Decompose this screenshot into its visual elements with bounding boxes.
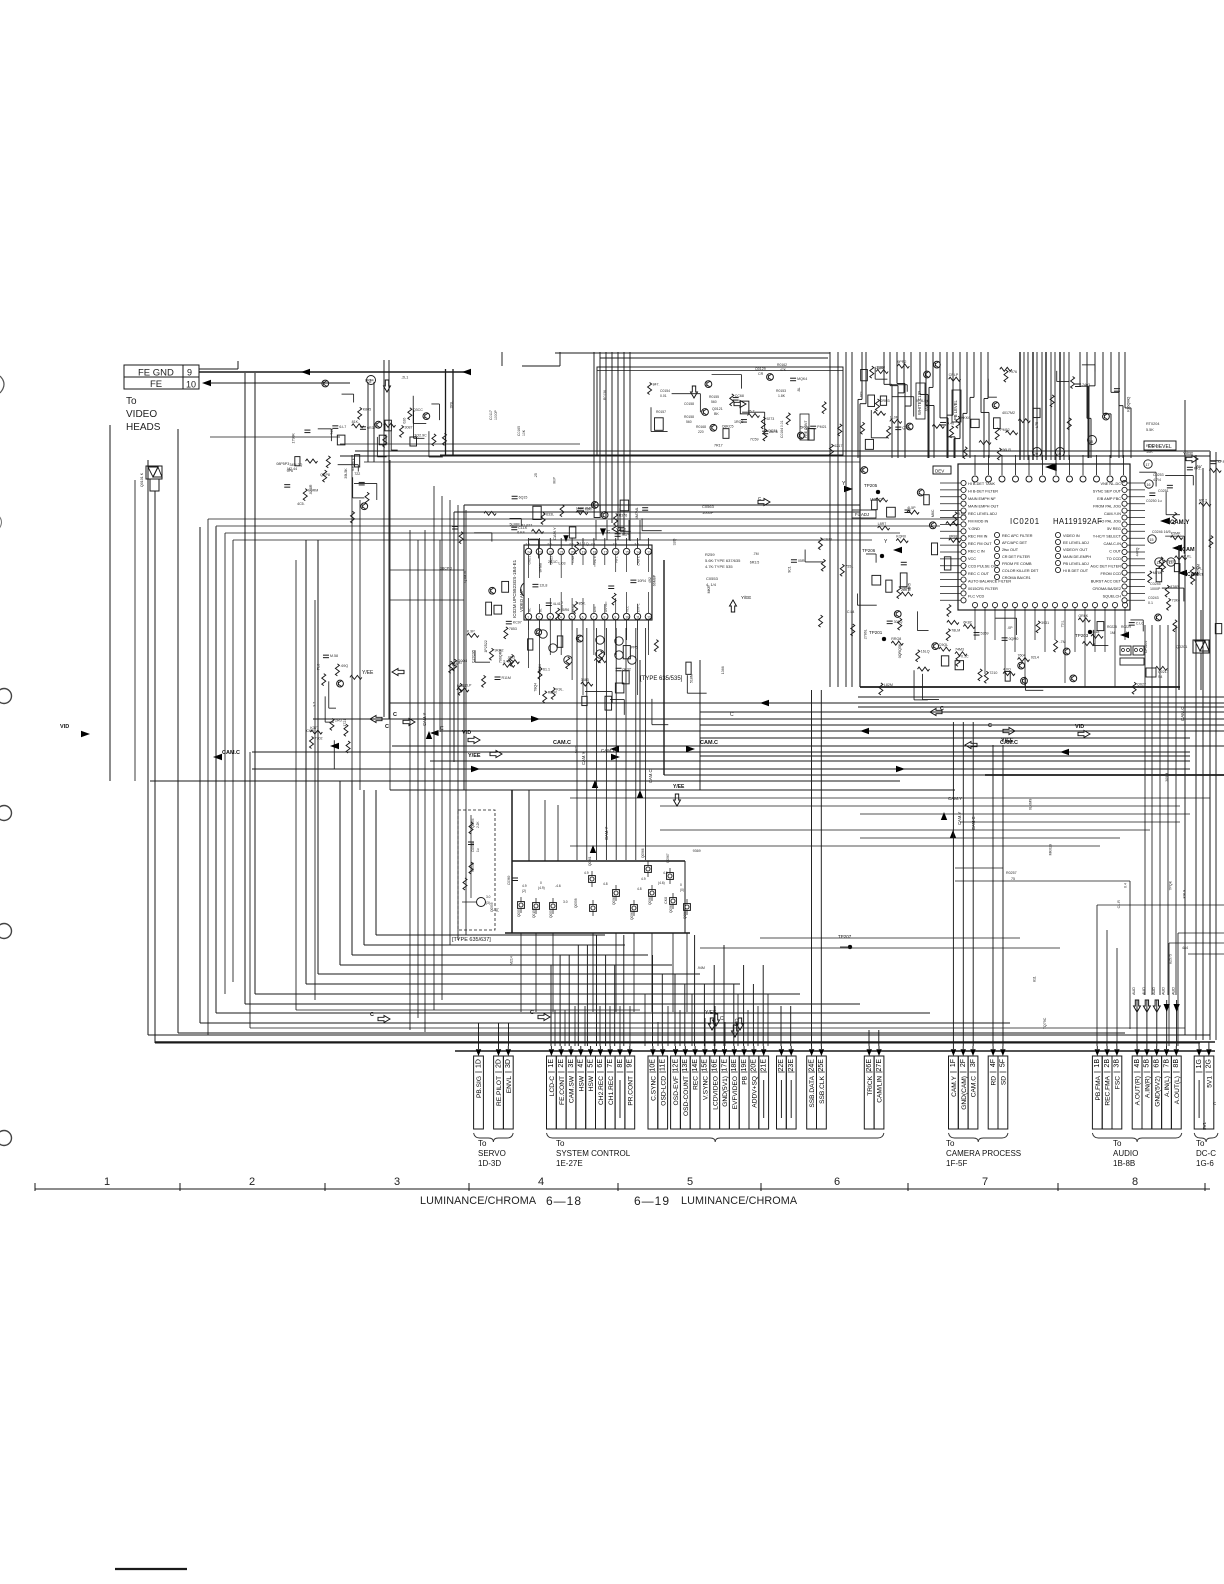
svg-text:BURST ACC DET: BURST ACC DET (1091, 580, 1122, 584)
svg-text:722: 722 (354, 472, 360, 476)
svg-text:VIDEO IN: VIDEO IN (1063, 534, 1080, 538)
svg-text:CAM.C: CAM.C (971, 1076, 978, 1097)
svg-text:6: 6 (582, 615, 584, 619)
svg-text:1: 1 (527, 615, 529, 619)
svg-text:-4.6: -4.6 (555, 884, 561, 888)
svg-text:CAM: CAM (1182, 547, 1195, 553)
svg-text:14: 14 (1157, 561, 1161, 565)
svg-text:VID: VID (462, 730, 471, 736)
svg-text:AUD: AUD (1142, 987, 1146, 995)
svg-text:CAM.Y: CAM.Y (422, 713, 427, 726)
svg-text:SYSTEM CONTROL: SYSTEM CONTROL (556, 1149, 631, 1158)
svg-text:SD: SD (1001, 1076, 1008, 1085)
svg-text:KL6QMQ: KL6QMQ (1127, 397, 1131, 412)
svg-text:2fsc OUT: 2fsc OUT (1002, 548, 1019, 552)
svg-text:C0246 16/5: C0246 16/5 (1152, 530, 1171, 534)
svg-text:4C5.: 4C5. (297, 502, 305, 506)
svg-text:1F-5F: 1F-5F (946, 1159, 967, 1168)
svg-text:ENVL: ENVL (506, 1076, 513, 1094)
svg-text:CRLP: CRLP (949, 373, 959, 377)
svg-text:2RR3: 2RR3 (880, 399, 889, 403)
svg-text:C0251: C0251 (1158, 489, 1169, 493)
svg-text:1B: 1B (1094, 1059, 1101, 1068)
svg-text:CAM C: CAM C (637, 555, 641, 566)
svg-text:To: To (1113, 1139, 1122, 1148)
svg-text:0.01: 0.01 (660, 394, 667, 398)
svg-text:7E: 7E (607, 1059, 614, 1068)
svg-text:18: 18 (593, 550, 597, 554)
svg-text:GND(CAM): GND(CAM) (961, 1076, 968, 1110)
svg-text:16: 16 (1057, 452, 1061, 456)
svg-text:2B: 2B (1104, 1059, 1111, 1068)
svg-text:25E: 25E (818, 1059, 825, 1072)
svg-text:SQUELCH: SQUELCH (1103, 595, 1122, 599)
svg-text:R0136: R0136 (603, 390, 607, 400)
svg-text:6K8C: 6K8C (963, 620, 972, 624)
svg-text:Q0567: Q0567 (666, 853, 670, 863)
svg-text:EVFVIDEO: EVFVIDEO (732, 1076, 739, 1109)
svg-text:HEADS: HEADS (126, 422, 161, 433)
svg-text:C.LC: C.LC (1136, 622, 1145, 626)
svg-text:C: C (393, 712, 397, 718)
svg-text:12L8: 12L8 (539, 583, 547, 587)
svg-text:4.9: 4.9 (522, 884, 527, 888)
svg-text:1: 1 (104, 1176, 110, 1188)
svg-text:C0154: C0154 (660, 389, 670, 393)
svg-text:0015CR1 FILTER: 0015CR1 FILTER (968, 587, 998, 591)
svg-text:24E: 24E (808, 1059, 815, 1072)
svg-text:R0157: R0157 (656, 410, 666, 414)
svg-text:4.9: 4.9 (641, 877, 646, 881)
svg-text:7: 7 (982, 1176, 988, 1188)
svg-text:R0546: R0546 (471, 862, 475, 872)
svg-text:6—19: 6—19 (634, 1194, 670, 1208)
svg-text:GND1: GND1 (528, 556, 532, 565)
svg-text:TP201: TP201 (869, 630, 883, 635)
svg-text:Q0551: Q0551 (517, 907, 521, 917)
svg-text:Y/EE: Y/EE (362, 670, 374, 676)
svg-text:484: 484 (1182, 946, 1188, 950)
svg-text:MQK4: MQK4 (797, 377, 807, 381)
svg-text:9: 9 (615, 615, 617, 619)
svg-text:C: C (530, 1010, 534, 1016)
svg-text:4.7/4: 4.7/4 (1153, 478, 1161, 482)
svg-text:IC02M UPC5823GS-1B4-E1: IC02M UPC5823GS-1B4-E1 (512, 559, 517, 618)
svg-text:Q0201: Q0201 (1176, 645, 1187, 649)
svg-text:To: To (478, 1139, 487, 1148)
svg-text:To: To (1196, 1139, 1205, 1148)
svg-text:K9L.: K9L. (556, 688, 563, 692)
svg-text:CAMERA PROCESS: CAMERA PROCESS (946, 1149, 1021, 1158)
svg-text:K9L9: K9L9 (1183, 890, 1187, 898)
svg-text:7P0.: 7P0. (450, 401, 454, 408)
svg-text:26E: 26E (866, 1059, 873, 1072)
svg-text:A.IN(L): A.IN(L) (1164, 1076, 1171, 1097)
svg-text:.6CL: .6CL (859, 390, 863, 398)
svg-text:C0553: C0553 (706, 576, 719, 581)
svg-text:FSC: FSC (1115, 1076, 1122, 1089)
svg-text:10: 10 (186, 380, 196, 390)
svg-text:14: 14 (636, 550, 640, 554)
svg-text:5F: 5F (1000, 1059, 1007, 1067)
svg-text:C.SYNC: C.SYNC (651, 1076, 658, 1101)
svg-text:12: 12 (647, 615, 651, 619)
svg-text:PB: PB (742, 1075, 749, 1084)
svg-text:7: 7 (593, 615, 595, 619)
svg-text:C: C (385, 724, 389, 730)
svg-text:L82M: L82M (884, 683, 893, 687)
svg-text:1D-3D: 1D-3D (478, 1159, 501, 1168)
svg-text:AUTO BALANCE FILTER: AUTO BALANCE FILTER (968, 580, 1011, 584)
svg-text:C0165: C0165 (517, 426, 521, 436)
svg-text:Q0158: Q0158 (532, 908, 536, 918)
svg-text:19: 19 (582, 550, 586, 554)
svg-text:1B-8B: 1B-8B (1113, 1159, 1135, 1168)
svg-text:Y-HC/Y SELECT: Y-HC/Y SELECT (1093, 535, 1122, 539)
svg-text:2E: 2E (558, 1059, 565, 1068)
svg-text:4.7K:TYPE 535: 4.7K:TYPE 535 (705, 564, 733, 569)
svg-text:1P2522: 1P2522 (484, 640, 488, 652)
svg-text:24.1C.: 24.1C. (548, 560, 559, 564)
svg-text:1L0P: 1L0P (890, 415, 899, 419)
svg-text:FE.CONT: FE.CONT (559, 1076, 566, 1105)
svg-text:2786L: 2786L (864, 629, 868, 639)
svg-text:FROM PAL JOG: FROM PAL JOG (1093, 505, 1121, 509)
svg-text:4.8: 4.8 (663, 871, 668, 875)
svg-text:ADDV+SQ: ADDV+SQ (752, 1076, 759, 1108)
svg-text:22: 22 (549, 550, 553, 554)
svg-text:..7M: ..7M (1059, 640, 1066, 644)
svg-text:COLOR KILLER DET: COLOR KILLER DET (1002, 569, 1039, 573)
svg-text:CAM.Y: CAM.Y (1170, 520, 1189, 526)
svg-text:18E: 18E (731, 1059, 738, 1072)
svg-text:P0RM: P0RM (308, 489, 318, 493)
svg-text:7PQK: 7PQK (1168, 880, 1172, 890)
svg-text:CAM: CAM (571, 556, 575, 563)
svg-text:1721: 1721 (343, 719, 347, 727)
svg-text:CAM.C: CAM.C (700, 740, 718, 746)
svg-text:220: 220 (698, 430, 704, 434)
svg-text:To: To (556, 1139, 565, 1148)
svg-text:0: 0 (540, 881, 542, 885)
svg-text:AGC DET FILTER: AGC DET FILTER (1090, 565, 1121, 569)
svg-text:6R3.5: 6R3.5 (750, 561, 760, 565)
svg-text:6.L7: 6.L7 (339, 425, 346, 429)
svg-text:16E: 16E (712, 1059, 719, 1072)
svg-text:RT0204: RT0204 (1146, 422, 1159, 426)
svg-text:VIDEO: VIDEO (126, 409, 157, 420)
svg-text:DEV: DEV (935, 469, 944, 474)
svg-text:QR6K: QR6K (1078, 614, 1088, 618)
svg-text:32Q: 32Q (673, 538, 677, 545)
svg-text:9369: 9369 (693, 849, 701, 853)
svg-text:R376: R376 (619, 513, 628, 517)
svg-text:8E: 8E (617, 1059, 624, 1068)
svg-text:AUD: AUD (1152, 987, 1156, 995)
svg-text:M.P: M.P (553, 477, 557, 484)
svg-text:Q0565: Q0565 (648, 895, 652, 905)
svg-text:GND(5V1): GND(5V1) (722, 1076, 729, 1107)
svg-text:C0243: C0243 (1148, 596, 1159, 600)
svg-text:PB LEVEL: PB LEVEL (953, 400, 958, 420)
svg-text:MAIN DE-EMPH: MAIN DE-EMPH (1063, 555, 1091, 559)
svg-text:8: 8 (604, 615, 606, 619)
svg-text:Q1M76: Q1M76 (463, 571, 467, 583)
svg-text:2R0.: 2R0. (335, 718, 343, 722)
svg-text:AUD: AUD (1132, 987, 1136, 995)
svg-text:KQR0: KQR0 (896, 535, 906, 539)
svg-text:E/B AMP FBC: E/B AMP FBC (1097, 497, 1121, 501)
svg-text:CK8: CK8 (664, 897, 668, 904)
svg-text:Y/EE: Y/EE (1001, 738, 1014, 744)
svg-text:QC74: QC74 (768, 429, 777, 433)
svg-text:2.2K: 2.2K (476, 821, 480, 828)
svg-text:HI B-DET TANK: HI B-DET TANK (968, 482, 995, 486)
svg-text:15: 15 (625, 550, 629, 554)
svg-text:10E: 10E (650, 1059, 657, 1072)
svg-text:4: 4 (560, 615, 562, 619)
svg-text:5.6K:TYPE 637/635: 5.6K:TYPE 637/635 (705, 558, 741, 563)
svg-text:96R6: 96R6 (561, 608, 570, 612)
svg-text:SSB.CLK: SSB.CLK (819, 1075, 826, 1103)
svg-text:2.0: 2.0 (569, 542, 574, 546)
svg-text:5359: 5359 (981, 632, 989, 636)
svg-text:7403: 7403 (1082, 383, 1090, 387)
svg-text:TRICK: TRICK (867, 1075, 874, 1095)
svg-text:(6): (6) (495, 908, 499, 912)
svg-text:1M: 1M (1110, 631, 1115, 635)
svg-text:CAM.Y: CAM.Y (957, 812, 962, 825)
svg-text:4017M2: 4017M2 (1002, 411, 1015, 415)
svg-text:3D: 3D (505, 1059, 512, 1068)
svg-text:8B: 8B (1173, 1059, 1180, 1068)
svg-text:5: 5 (571, 615, 573, 619)
svg-text:CL.R: CL.R (1117, 900, 1121, 909)
svg-text:5: 5 (687, 1176, 693, 1188)
svg-text:3E: 3E (568, 1059, 575, 1068)
svg-text:6.K4: 6.K4 (517, 531, 524, 535)
svg-text:12LP: 12LP (463, 683, 472, 687)
svg-text:L.03: L.03 (558, 561, 565, 565)
svg-text:C: C (988, 723, 992, 729)
svg-text:9C1: 9C1 (787, 566, 791, 573)
svg-text:3.0: 3.0 (486, 895, 491, 899)
svg-text:PM21: PM21 (817, 425, 826, 429)
svg-text:7210: 7210 (989, 671, 997, 675)
svg-text:560: 560 (686, 420, 692, 424)
svg-text:7604: 7604 (1018, 654, 1026, 658)
svg-text:3: 3 (549, 615, 551, 619)
svg-text:C.L4: C.L4 (847, 610, 855, 614)
svg-text:C0253: C0253 (1153, 473, 1164, 477)
svg-text:19E: 19E (741, 1059, 748, 1072)
svg-text:1D: 1D (475, 1059, 482, 1068)
svg-text:A.OUT(R): A.OUT(R) (1135, 1076, 1142, 1105)
svg-text:3087: 3087 (405, 425, 413, 429)
svg-text:Y/EE: Y/EE (468, 753, 481, 759)
svg-text:24: 24 (527, 550, 531, 554)
svg-text:4.8: 4.8 (603, 882, 608, 886)
svg-text:PB C: PB C (615, 555, 619, 563)
svg-text:.0P: .0P (1007, 626, 1013, 630)
svg-text:C0556: C0556 (471, 842, 475, 852)
svg-text:M214: M214 (509, 956, 513, 965)
svg-text:C0158: C0158 (684, 402, 694, 406)
svg-text:FE GND: FE GND (138, 368, 174, 379)
svg-text:66M8P: 66M8P (652, 574, 656, 586)
svg-text:31.027: 31.027 (521, 523, 532, 527)
svg-text:4L41: 4L41 (553, 602, 561, 606)
svg-text:C27C95: C27C95 (471, 650, 475, 663)
svg-text:CAM.C: CAM.C (1180, 706, 1185, 721)
svg-text:C0164 0.01: C0164 0.01 (780, 420, 784, 438)
svg-text:Q0564: Q0564 (669, 903, 673, 913)
svg-text:PM52: PM52 (1000, 428, 1009, 432)
svg-text:MKR: MKR (707, 585, 711, 593)
svg-text:.25: .25 (534, 473, 538, 478)
svg-text:EVF: EVF (593, 606, 597, 612)
svg-text:8.MK: 8.MK (958, 512, 967, 516)
svg-text:V.SYNC: V.SYNC (703, 1076, 710, 1100)
svg-text:12E: 12E (672, 1059, 679, 1072)
svg-text:LUMINANCE/CHROMA: LUMINANCE/CHROMA (420, 1195, 537, 1207)
svg-text:CH2.REC: CH2.REC (598, 1076, 605, 1105)
svg-text:10K: 10K (522, 429, 526, 436)
svg-text:7R17: 7R17 (714, 444, 723, 448)
svg-text:TO PAL JOG: TO PAL JOG (1099, 520, 1121, 524)
svg-text:706QR8: 706QR8 (498, 650, 502, 663)
svg-text:3Q2.9C: 3Q2.9C (414, 434, 427, 438)
svg-text:To: To (126, 396, 137, 407)
svg-text:11E: 11E (660, 1059, 667, 1071)
svg-text:6: 6 (834, 1176, 840, 1188)
svg-text:23E: 23E (788, 1059, 795, 1072)
svg-text:(4.9): (4.9) (538, 886, 545, 890)
svg-text:M.58: M.58 (330, 654, 338, 658)
svg-text:TO CCD: TO CCD (1107, 557, 1122, 561)
svg-text:492: 492 (648, 577, 652, 583)
svg-text:To: To (946, 1139, 955, 1148)
svg-text:EE LEVEL: EE LEVEL (1148, 444, 1172, 450)
svg-text:10R4: 10R4 (637, 579, 646, 583)
svg-text:0K32: 0K32 (623, 667, 631, 671)
svg-text:8: 8 (1132, 1176, 1138, 1188)
svg-text:1u: 1u (476, 848, 480, 852)
svg-text:74M3: 74M3 (955, 648, 964, 652)
svg-text:61.1: 61.1 (543, 667, 550, 671)
svg-text:27E: 27E (876, 1059, 883, 1072)
svg-text:0LKM9: 0LKM9 (1028, 799, 1032, 810)
svg-text:9273: 9273 (766, 417, 774, 421)
svg-text:743: 743 (330, 429, 334, 435)
svg-text:DC-C: DC-C (1196, 1149, 1216, 1158)
svg-text:2: 2 (538, 615, 540, 619)
svg-text:PB.SIG: PB.SIG (476, 1076, 483, 1098)
svg-text:FROM FE COMB: FROM FE COMB (1002, 562, 1032, 566)
svg-text:SERVO: SERVO (478, 1149, 506, 1158)
svg-text:VID: VID (60, 724, 69, 730)
svg-text:9PR2: 9PR2 (897, 360, 906, 364)
svg-text:TP203: TP203 (1075, 633, 1089, 638)
svg-text:.94M: .94M (697, 966, 705, 970)
svg-text:CROMA BA/DE2: CROMA BA/DE2 (1093, 587, 1121, 591)
svg-text:BK: BK (714, 412, 719, 416)
svg-text:RRQ8: RRQ8 (891, 637, 901, 641)
svg-text:HI B-DET FILTER: HI B-DET FILTER (968, 490, 998, 494)
svg-text:47K: 47K (780, 368, 787, 372)
svg-text:4B: 4B (1134, 1059, 1141, 1068)
svg-text:6—18: 6—18 (546, 1194, 582, 1208)
svg-text:13: 13 (1169, 561, 1173, 565)
svg-text:1000P: 1000P (1150, 587, 1161, 591)
svg-text:VCC: VCC (968, 557, 976, 561)
svg-text:TYPE C: TYPE C (593, 555, 597, 567)
svg-text:17: 17 (604, 550, 608, 554)
svg-text:VCC: VCC (626, 605, 630, 612)
svg-text:CAM/LIN: CAM/LIN (877, 1076, 884, 1103)
svg-text:4.9: 4.9 (584, 871, 589, 875)
svg-text:CAM.C: CAM.C (648, 770, 653, 784)
svg-text:17E: 17E (721, 1059, 728, 1072)
svg-text:R0168: R0168 (696, 425, 706, 429)
svg-text:78LM: 78LM (951, 629, 960, 633)
svg-text:1E-27E: 1E-27E (556, 1159, 583, 1168)
svg-text:1F: 1F (950, 1059, 957, 1067)
svg-text:7Q79C: 7Q79C (1043, 1017, 1047, 1029)
svg-text:85K.: 85K. (579, 601, 586, 605)
svg-text:CAM.Y: CAM.Y (601, 748, 615, 753)
svg-text:16LQ: 16LQ (921, 650, 930, 654)
svg-text:Q0101 K: Q0101 K (140, 472, 144, 487)
svg-text:CAM.Y: CAM.Y (951, 1075, 958, 1096)
svg-text:22E: 22E (778, 1059, 785, 1072)
svg-text:4M7ML: 4M7ML (635, 507, 639, 519)
svg-text:02L4: 02L4 (1031, 656, 1039, 660)
svg-text:C0245: C0245 (1150, 582, 1161, 586)
svg-text:9: 9 (187, 368, 192, 378)
svg-text:VIDEO/Y OUT: VIDEO/Y OUT (1063, 548, 1088, 552)
svg-text:CAM-C-IN: CAM-C-IN (1103, 542, 1121, 546)
svg-text:REC FM OUT: REC FM OUT (968, 542, 992, 546)
svg-text:Q0562: Q0562 (612, 895, 616, 905)
svg-text:R0257: R0257 (1006, 871, 1017, 875)
svg-text:CR DET FILTER: CR DET FILTER (1002, 555, 1030, 559)
svg-text:MK029: MK029 (1049, 844, 1053, 855)
svg-text:HSW: HSW (588, 1075, 595, 1091)
svg-text:6B: 6B (1154, 1059, 1161, 1068)
svg-text:CAM.Y: CAM.Y (948, 796, 962, 801)
svg-text:20: 20 (1034, 452, 1038, 456)
svg-text:R86R: R86R (548, 691, 558, 695)
svg-text:13: 13 (647, 550, 651, 554)
svg-text:RD: RD (991, 1076, 998, 1086)
svg-text:M6C: M6C (931, 509, 935, 517)
svg-text:0.1: 0.1 (1148, 601, 1153, 605)
svg-text:MAIN EMPH NF: MAIN EMPH NF (968, 497, 996, 501)
svg-text:C: C (940, 706, 944, 712)
svg-text:KC97: KC97 (513, 620, 522, 624)
svg-text:Q0561: Q0561 (588, 856, 592, 866)
svg-text:(2): (2) (522, 889, 526, 893)
svg-text:BL: BL (538, 608, 542, 612)
svg-text:PK1.: PK1. (1194, 466, 1202, 470)
svg-text:K5MK: K5MK (1171, 532, 1181, 536)
svg-text:REC APC FILTER: REC APC FILTER (1002, 534, 1033, 538)
svg-text:FROM CCD: FROM CCD (1101, 572, 1122, 576)
svg-text:PP5: PP5 (631, 646, 638, 650)
svg-text:R0158: R0158 (684, 415, 694, 419)
svg-text:K518: K518 (1091, 630, 1099, 634)
